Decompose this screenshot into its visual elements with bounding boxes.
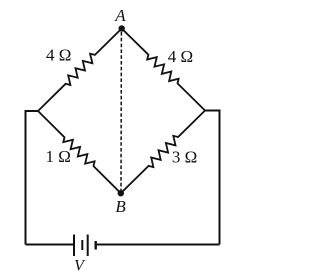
label 4 ohm top-left (46, 46, 71, 65)
battery V plates (74, 235, 96, 257)
svg-text:4 Ω: 4 Ω (168, 47, 193, 66)
resistor R4 3ohm bottom-right (121, 111, 205, 194)
svg-text:V: V (74, 258, 86, 275)
wire bottom left to battery (26, 244, 75, 246)
label A (114, 6, 126, 25)
resistor R3 1ohm bottom-left (38, 111, 121, 193)
wire left stub and left vertical (26, 111, 39, 245)
svg-text:B: B (115, 197, 126, 216)
svg-text:1 Ω: 1 Ω (46, 147, 71, 166)
svg-text:A: A (114, 6, 126, 25)
label B (115, 197, 126, 216)
label 4 ohm top-right (168, 47, 193, 66)
node B junction dot (118, 190, 124, 196)
svg-text:4 Ω: 4 Ω (46, 46, 71, 65)
label 1 ohm bottom-left (46, 147, 71, 166)
label 3 ohm bottom-right (172, 148, 197, 167)
wire bottom battery to right (96, 244, 220, 246)
label V (74, 258, 86, 275)
svg-text:3 Ω: 3 Ω (172, 148, 197, 167)
resistor R1 4ohm top-left (38, 29, 122, 112)
dashed line A to B (galvanometer branch) (120, 32, 122, 190)
node A junction dot (119, 25, 125, 31)
resistor R2 4ohm top-right (122, 29, 205, 111)
wire right stub and right vertical (205, 111, 220, 245)
